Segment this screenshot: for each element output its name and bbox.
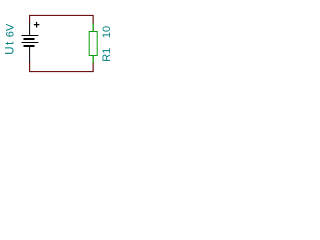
battery Ut short plate 1 bbox=[24, 38, 35, 40]
svg-text:6V: 6V bbox=[4, 23, 16, 37]
svg-text:Ut: Ut bbox=[4, 40, 16, 55]
resistor R1 body bbox=[89, 32, 97, 56]
resistor R1 top pin stub bbox=[92, 24, 94, 32]
battery Ut long plate 2 bbox=[22, 42, 39, 44]
battery Ut bottom pin stub bbox=[29, 47, 31, 63]
battery Ut top pin stub bbox=[29, 22, 31, 36]
battery Ut long plate 1 bbox=[22, 35, 39, 37]
svg-text:10: 10 bbox=[101, 26, 113, 38]
svg-text:R1: R1 bbox=[101, 48, 113, 62]
battery Ut short plate 2 bbox=[24, 45, 35, 47]
wire bottom (net from resistor to battery -) bbox=[30, 62, 94, 72]
svg-text:+: + bbox=[33, 20, 39, 32]
resistor R1 bottom pin stub bbox=[92, 56, 94, 64]
wire top (net from battery + to resistor) bbox=[30, 15, 94, 24]
